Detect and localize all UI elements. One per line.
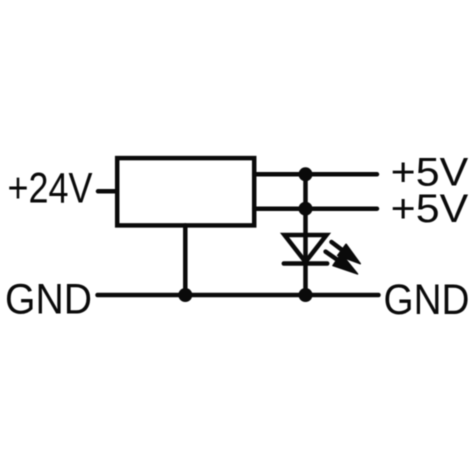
junction node +5V-1 [299, 167, 313, 181]
junction LED GND [299, 288, 313, 302]
svg-text:+24V: +24V [8, 166, 94, 213]
wire module ground [183, 225, 188, 295]
svg-text:GND: GND [384, 277, 470, 324]
LED cathode bar [284, 261, 327, 266]
svg-text:GND: GND [5, 277, 92, 324]
LED light arrow 1 [327, 236, 364, 269]
wire +24V input [98, 189, 117, 194]
LED D1 triangle [285, 235, 327, 262]
junction module GND [178, 288, 192, 302]
wire GND bus [98, 293, 379, 298]
LED light arrow 2 [321, 246, 361, 280]
svg-text:+5V: +5V [391, 187, 469, 231]
wire LED branch [303, 174, 308, 295]
wire +5V output 1 [254, 172, 377, 177]
wire +5V output 2 [254, 206, 377, 211]
DC/DC converter module [117, 158, 254, 225]
junction node +5V-2 [299, 202, 313, 216]
